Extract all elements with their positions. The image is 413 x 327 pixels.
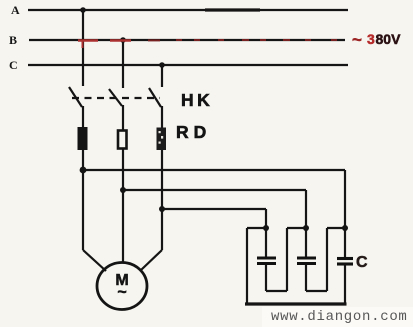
svg-text:C: C: [9, 58, 18, 72]
svg-text:~: ~: [117, 284, 126, 301]
svg-text:A: A: [11, 3, 20, 17]
svg-text:HK: HK: [181, 90, 213, 110]
svg-text:C: C: [356, 254, 368, 271]
svg-text:www.diangon.com: www.diangon.com: [271, 309, 408, 325]
svg-text:~: ~: [352, 30, 362, 49]
svg-text:80V: 80V: [376, 31, 402, 47]
svg-text:3: 3: [367, 31, 375, 47]
svg-text:B: B: [9, 33, 17, 47]
svg-text:RD: RD: [176, 122, 211, 142]
